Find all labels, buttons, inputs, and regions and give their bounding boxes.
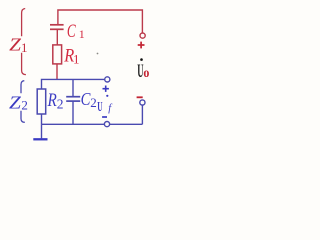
svg-text:R: R: [47, 91, 57, 111]
terminal: Uf + (circle on top blue wire): [105, 77, 110, 82]
stray speck: [97, 53, 99, 55]
svg-text:2: 2: [90, 95, 97, 110]
ground: [33, 124, 47, 139]
terminal: Uo + (red circle top right): [140, 33, 145, 38]
svg-text:1: 1: [21, 40, 28, 55]
capacitor C1: [50, 25, 64, 30]
svg-text:Z: Z: [9, 92, 21, 112]
svg-text:o: o: [143, 66, 149, 81]
terminal: Uf - (circle on bottom wire): [104, 122, 109, 127]
resistor R2: [37, 89, 46, 114]
capacitor C2: [66, 79, 80, 124]
svg-text:C: C: [67, 21, 76, 42]
wire: R1 bottom lead down to blue node: [56, 64, 58, 80]
label R2: [47, 91, 64, 112]
wire: R2 bottom lead: [41, 114, 43, 124]
svg-text:2: 2: [21, 98, 28, 113]
svg-text:1: 1: [79, 27, 85, 41]
impedance bracket Z2 (blue): [21, 81, 25, 123]
label Z1: [9, 34, 27, 55]
plus sign Uo: [138, 42, 145, 49]
label C1: [67, 21, 85, 42]
svg-text:1: 1: [73, 51, 80, 66]
svg-text:Z: Z: [9, 34, 21, 54]
svg-text:U: U: [97, 100, 102, 115]
label R1: [63, 47, 79, 67]
wire: right blue vertical to bottom wire: [141, 105, 143, 124]
wire: blue node wire (top of Z2 network): [42, 79, 105, 89]
wire: bottom blue wire: [42, 123, 143, 125]
label Uo with dot: [137, 58, 149, 82]
svg-text:2: 2: [57, 97, 64, 112]
resistor R1: [53, 45, 62, 64]
wire: C1 bottom plate to R1: [56, 29, 58, 45]
label Z2: [9, 92, 28, 112]
plus sign Uf: [103, 86, 109, 92]
wire: top red wire from C1 node to output + terminal: [58, 10, 142, 33]
terminal: Uo - (blue circle right): [140, 100, 145, 105]
impedance bracket Z1 (red): [22, 9, 26, 75]
label Uf with dot: [97, 95, 113, 115]
minus sign Uf: [102, 116, 107, 118]
minus sign Uo: [137, 96, 143, 98]
label C2: [81, 89, 97, 110]
